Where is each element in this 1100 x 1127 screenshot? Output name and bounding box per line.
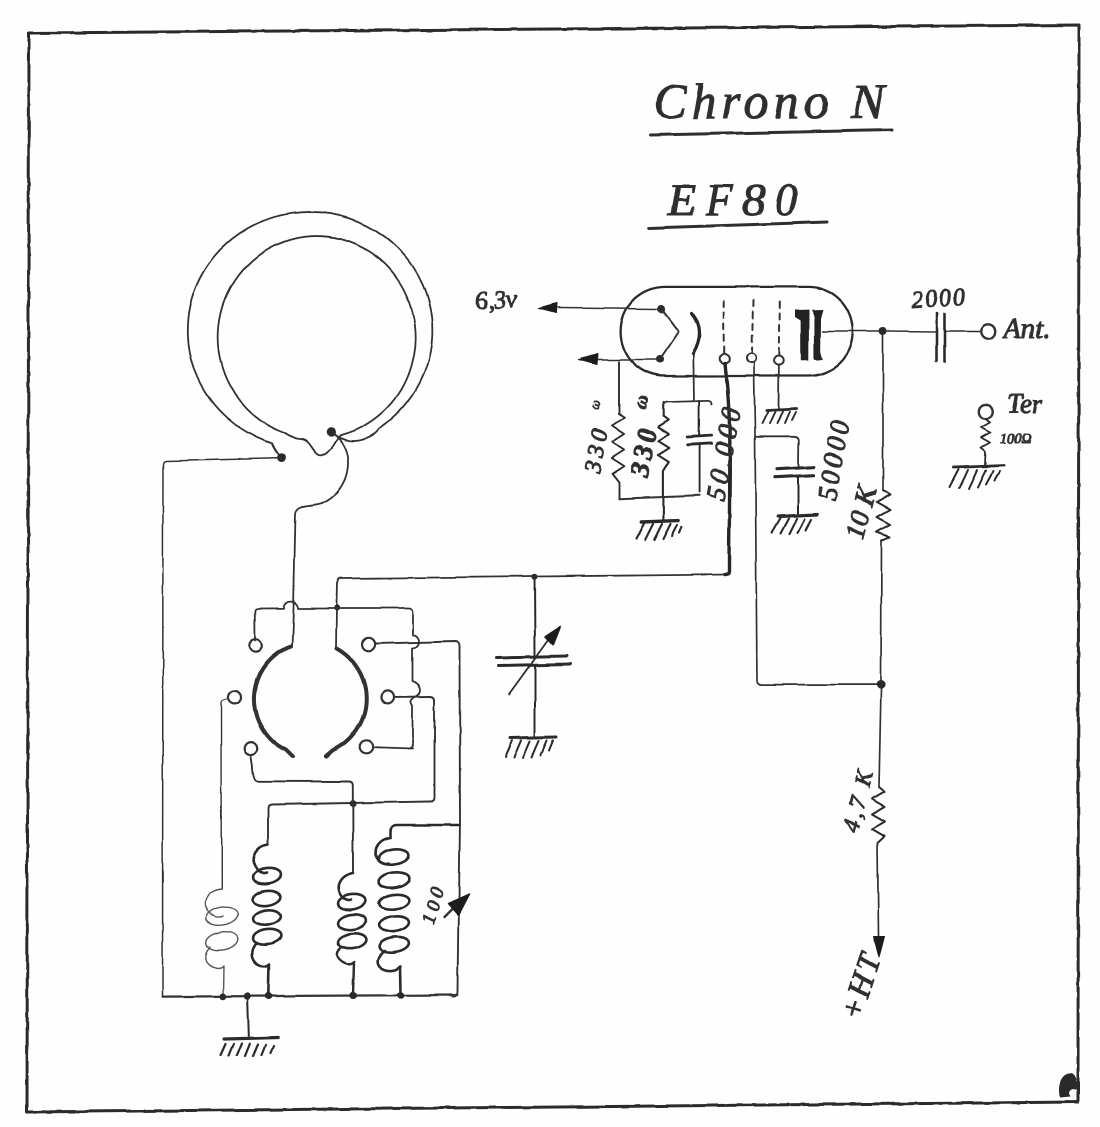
node junction C2/bus — [531, 574, 537, 580]
wire bottom-right contact lead — [373, 747, 412, 748]
svg-text:50000: 50000 — [811, 414, 855, 503]
node junction grid1 bus / rotor right — [334, 605, 340, 611]
resistor R2 330ohm — [658, 402, 669, 520]
wire grid1 lead (thick) — [725, 363, 730, 575]
wire anode rail down to 10k — [882, 335, 884, 490]
ground G5 (C3) — [772, 515, 817, 534]
rotary switch S1 left arc — [254, 646, 293, 757]
tube V1 EF80 envelope — [621, 287, 854, 376]
pin g1 circle — [720, 354, 730, 364]
node junction coil1/rail — [219, 993, 226, 1000]
contact mid-right — [381, 691, 394, 704]
label R2 330w — [624, 392, 663, 480]
wire loop tail to rotor — [292, 432, 349, 646]
wire heater top lead — [558, 308, 658, 309]
wire bottom-left contact to coil3 top — [251, 755, 353, 873]
svg-text:+HT: +HT — [832, 946, 888, 1025]
svg-text:50.000: 50.000 — [700, 401, 747, 503]
tap arrow on right rail — [444, 894, 469, 917]
capacitor C4 2000 — [937, 313, 981, 362]
node junction screen feed — [876, 680, 885, 689]
loop antenna L1 inner turn — [218, 236, 415, 455]
wire grid1 bus (long horizontal) — [337, 575, 730, 650]
pin g3 circle — [774, 356, 784, 366]
wire mid-right contact to coil2 top — [268, 697, 435, 845]
cathode K — [692, 313, 700, 354]
grid g2 dashed — [752, 301, 753, 352]
wire 4.7k down — [878, 843, 879, 936]
arrow +HT — [874, 936, 885, 957]
wire loop to left rail — [163, 458, 282, 997]
loop antenna L1 outer turn — [187, 212, 432, 458]
rotary switch S1 right arc — [326, 649, 366, 756]
svg-text:ω: ω — [630, 392, 654, 411]
node junction coil4/rail — [397, 992, 404, 999]
wire 10k to junction — [880, 541, 883, 680]
node junction coil2/rail — [265, 992, 272, 999]
variable capacitor C2 — [497, 577, 571, 737]
node loop outer terminal dot — [277, 453, 286, 462]
capacitor C1 — [688, 401, 712, 492]
wire cathode lead — [692, 354, 695, 401]
svg-text:ω: ω — [587, 398, 604, 412]
svg-text:EF80: EF80 — [667, 174, 806, 225]
wire left contact to coil1 top — [222, 699, 229, 890]
node junction coil3/rail — [350, 992, 357, 999]
resistor R5 100ohm (small) — [982, 420, 991, 466]
label R1 330w — [580, 398, 614, 476]
svg-text:2000: 2000 — [911, 284, 969, 314]
heater pin bottom dot — [656, 356, 664, 364]
wire switch row (horizontal with hops) — [255, 601, 421, 748]
svg-text:330: 330 — [624, 422, 663, 480]
inductor L3 (coil2) — [252, 845, 282, 996]
contact bottom-left — [244, 742, 257, 755]
inductor L5 (coil4) — [375, 826, 459, 995]
inductor L4 (coil3) — [337, 873, 367, 995]
svg-text:6,3v: 6,3v — [475, 285, 520, 315]
wire grid3 lead — [778, 365, 780, 408]
title Chrono N — [651, 73, 892, 135]
svg-text:10 K: 10 K — [840, 482, 884, 543]
svg-text:Ant.: Ant. — [1002, 314, 1050, 345]
resistor R3 10k — [877, 490, 891, 541]
grid g3 dashed — [778, 302, 781, 355]
anode plate bars — [795, 310, 823, 361]
wire RC top rail — [664, 401, 712, 406]
wire bottom rail — [163, 995, 458, 997]
ground G4 (cathode RC) — [636, 521, 682, 540]
node loop inner terminal dot — [326, 428, 335, 437]
capacitor C3 50000 — [775, 467, 814, 514]
heater filament V1 — [660, 309, 679, 360]
wire RC bottom rail — [619, 495, 700, 498]
resistor R4 4,7k — [872, 787, 885, 843]
contact top-right — [362, 638, 375, 651]
svg-text:Chrono N: Chrono N — [653, 73, 890, 129]
arrow heater bottom — [579, 354, 598, 365]
wire top-right contact to right rail — [375, 642, 460, 997]
wire to C4 — [887, 330, 936, 333]
ground G1 (bottom) — [221, 998, 278, 1057]
ground G6 (Ter) — [950, 466, 1004, 489]
node junction rail2 / coil3 lead — [350, 800, 357, 807]
wire grid2 lead down — [754, 362, 877, 685]
ground G2 (variable cap) — [505, 738, 556, 759]
wire junction down to 4.7k — [879, 689, 881, 787]
contact top-left — [249, 640, 262, 653]
title EF80 — [649, 174, 827, 228]
inductor L2 (coil1, faint) — [205, 889, 240, 997]
wire 50000 branch — [755, 437, 799, 466]
contact bottom-right — [360, 740, 373, 753]
svg-text:100Ω: 100Ω — [1000, 432, 1031, 447]
pin g2 circle — [747, 353, 757, 363]
corner blob — [1059, 1073, 1077, 1097]
svg-text:330: 330 — [580, 423, 614, 476]
heater pin top dot — [657, 305, 665, 313]
terminal Ant circle — [981, 324, 995, 338]
contact left — [228, 691, 241, 704]
resistor R1 330ohm — [612, 362, 624, 499]
svg-text:Ter: Ter — [1007, 389, 1043, 419]
grid g1 dashed — [723, 301, 725, 354]
svg-text:100: 100 — [419, 882, 450, 927]
node junction ground stub/rail — [244, 993, 251, 1000]
arrow heater top — [539, 304, 557, 314]
wire anode lead — [822, 330, 881, 332]
node junction anode/2000 — [879, 327, 887, 335]
terminal Ter circle — [979, 405, 993, 419]
ground G3 (grid3) — [762, 409, 797, 424]
wire heater bottom lead — [598, 359, 657, 361]
